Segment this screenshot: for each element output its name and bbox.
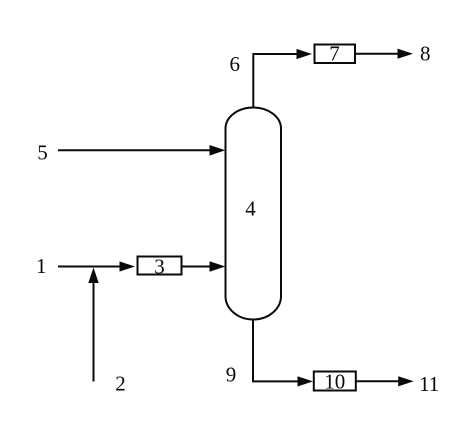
svg-text:7: 7 — [329, 42, 340, 66]
wire box 3 to column — [182, 266, 211, 268]
box 10 — [314, 372, 356, 391]
wire stream 6 (column top to splitter box 7) — [253, 54, 298, 108]
wire stream 5 (feed into column) — [58, 149, 211, 151]
arrowhead stream 9 into box 10 — [298, 376, 314, 386]
svg-text:9: 9 — [226, 362, 237, 386]
svg-text:6: 6 — [229, 52, 240, 76]
wire stream 8 (box 7 to outlet) — [356, 53, 400, 55]
arrowhead stream 11 — [398, 376, 414, 386]
column vessel 4 — [226, 108, 282, 320]
box 3 — [138, 257, 182, 275]
wire stream 2 (vertical feed into stream 1) — [93, 280, 95, 382]
arrowhead stream 2 up into stream 1 — [88, 268, 98, 284]
svg-text:4: 4 — [245, 197, 256, 221]
arrowhead stream 1 into box 3 — [120, 261, 136, 271]
wire stream 11 (box 10 to outlet) — [356, 380, 400, 382]
wire stream 9 (column bottom to box 10) — [253, 320, 299, 382]
svg-text:1: 1 — [36, 254, 47, 278]
svg-text:8: 8 — [420, 42, 431, 66]
svg-text:3: 3 — [154, 254, 165, 278]
arrowhead stream 8 — [398, 49, 414, 59]
arrowhead stream 5 into column — [210, 145, 226, 156]
svg-text:2: 2 — [115, 372, 126, 396]
svg-text:11: 11 — [419, 372, 439, 396]
box 7 — [315, 45, 356, 64]
svg-text:5: 5 — [37, 141, 48, 165]
svg-text:10: 10 — [324, 369, 345, 393]
wire stream 1 (feed to box 3) — [58, 266, 121, 268]
arrowhead stream 6 into box 7 — [297, 49, 313, 59]
arrowhead box 3 into column — [210, 261, 226, 272]
